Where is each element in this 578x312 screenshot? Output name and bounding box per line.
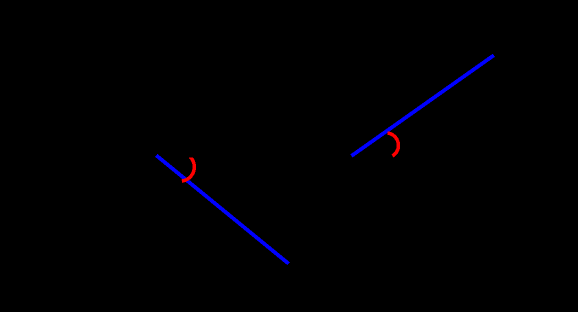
black horizontal-line mask clipping left arc top [183, 149, 198, 158]
wire left blue segment [156, 155, 288, 263]
left red angle arc [182, 157, 195, 181]
right red angle arc [388, 133, 399, 156]
wire right blue segment [352, 55, 494, 156]
